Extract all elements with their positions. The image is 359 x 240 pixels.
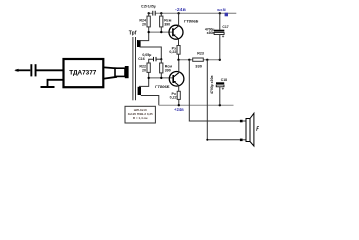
wire to IC [37, 69, 64, 71]
svg-text:С18: С18 [221, 78, 227, 82]
speaker [246, 119, 250, 142]
resistor Re lower [177, 91, 180, 99]
node base R24 [148, 31, 150, 33]
wire output node [179, 59, 220, 61]
wire secondary upper top to base node [138, 32, 149, 41]
svg-text:0,22: 0,22 [169, 50, 176, 54]
IC U1 TDA7377 [64, 59, 104, 87]
transformer secondary lower winding [138, 87, 141, 95]
svg-text:С15 0,05µ: С15 0,05µ [141, 4, 156, 8]
svg-text:ТДА7377: ТДА7377 [69, 69, 97, 76]
wire base Q2 [149, 77, 174, 79]
svg-text:С17: С17 [222, 25, 228, 29]
svg-text:4700µ х30в: 4700µ х30в [210, 76, 214, 95]
node speaker tap left [188, 59, 190, 61]
label speaker [257, 127, 259, 131]
capacitor input coupling [30, 64, 32, 76]
capacitor C17 [219, 13, 221, 29]
svg-text:Трf: Трf [129, 31, 137, 37]
node rail Rsm [160, 12, 162, 14]
resistor Rsm lower [160, 59, 162, 63]
transformer secondary upper winding [137, 40, 141, 47]
svg-text:х30в: х30в [207, 31, 215, 35]
speaker terminal bottom [240, 139, 243, 142]
node emitter junction [177, 59, 179, 61]
resistor R24 [148, 13, 150, 16]
capacitor C16 [149, 59, 153, 63]
wire emitter Q2 to Re [178, 85, 180, 91]
svg-text:+: + [222, 34, 225, 39]
node corner speaker bottom [206, 139, 208, 141]
svg-text:+24в: +24в [174, 107, 184, 112]
ground [41, 86, 55, 88]
node rail C17 [219, 12, 221, 14]
svg-text:20: 20 [142, 69, 146, 73]
wire ground from IC [48, 80, 63, 87]
speaker terminal top [240, 120, 243, 123]
node base Rsm lower [160, 77, 162, 79]
node base Rsm [160, 31, 162, 33]
marker blue [225, 13, 228, 17]
wire secondary upper bottom to C16 node [140, 47, 162, 59]
resistor Rsm upper [160, 13, 162, 16]
wire IC out lower [104, 77, 117, 79]
node C18 rail [219, 104, 221, 106]
rail +24v bottom [159, 104, 234, 106]
svg-text:390: 390 [165, 69, 171, 73]
rail -24v top [149, 12, 153, 14]
wire speaker bottom [207, 60, 240, 140]
svg-text:ГТ806Б: ГТ806Б [184, 19, 199, 24]
capacitor C18 [216, 82, 224, 84]
node Re lower rail [178, 104, 180, 106]
svg-text:вых.ВК: вых.ВК [217, 8, 226, 12]
resistor R23 [193, 58, 204, 61]
svg-text:390: 390 [164, 22, 170, 26]
svg-text:330: 330 [195, 63, 202, 68]
wire IC out upper [104, 67, 117, 68]
svg-text:-24в: -24в [175, 7, 186, 12]
node rail R24 [148, 12, 150, 14]
transformer core [132, 37, 134, 100]
wire collector Q1 to rail [178, 13, 180, 26]
svg-text:R23: R23 [197, 52, 204, 56]
svg-text:С16: С16 [138, 57, 145, 61]
transistor Q1 GT806B [169, 25, 183, 39]
resistor Re upper [177, 46, 180, 55]
capacitor C15 [152, 11, 153, 16]
wire secondary lower top to base node [139, 78, 149, 87]
transformer Tr primary [115, 68, 125, 76]
node speaker tap right [206, 59, 208, 61]
wire input left [16, 69, 31, 71]
transistor Q2 GT806B [169, 72, 184, 87]
resistor R22 [147, 63, 150, 72]
wire collector Q2 to output node [178, 60, 180, 73]
svg-text:R = 1,4 ом: R = 1,4 ом [133, 116, 148, 120]
svg-text:ГТ806Б: ГТ806Б [155, 84, 170, 89]
node rail collector Q1 [177, 12, 179, 14]
svg-text:0,22: 0,22 [170, 96, 177, 100]
wire emitter Q1 to Re [178, 39, 180, 46]
wire speaker top [189, 60, 240, 121]
node C17 bottom [219, 59, 221, 61]
wire base Q1 [149, 31, 173, 33]
node base R22 [148, 77, 150, 79]
wire secondary lower bottom to +24v rail [141, 96, 159, 106]
svg-text:20: 20 [142, 22, 146, 26]
wire terminal to speaker [242, 120, 246, 122]
node C16 right [160, 58, 162, 60]
note box [125, 106, 155, 123]
svg-text:+: + [222, 86, 225, 91]
